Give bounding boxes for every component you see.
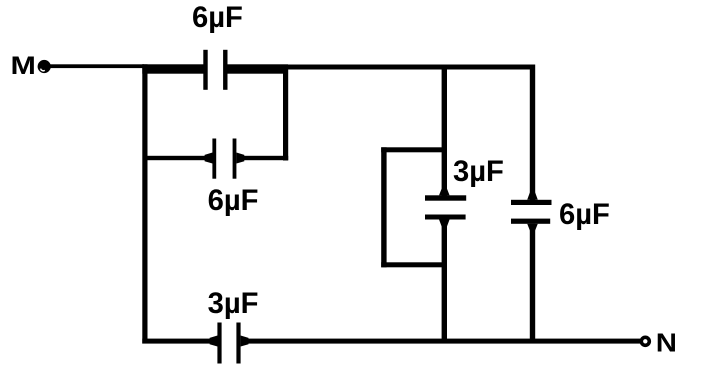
capacitor C2 right wedge (236, 153, 244, 164)
capacitor C5 bottom wedge (527, 224, 538, 230)
capacitor C5 top plate (511, 200, 552, 205)
wire mid vertical top segment (x=444) (442, 65, 447, 196)
capacitor C5 top wedge (527, 193, 538, 200)
capacitor C3 right plate (236, 323, 240, 364)
svg-text:6µF: 6µF (559, 199, 610, 231)
wire loop bottom (381, 262, 447, 267)
capacitor C4 top plate (425, 195, 466, 200)
wire pair-right vertical (x=285.5) (283, 65, 288, 161)
capacitor C2 left wedge (205, 153, 213, 164)
capacitor C2 right plate (233, 139, 237, 179)
capacitor C4 bottom wedge (439, 219, 450, 226)
capacitor C3 left plate (217, 323, 221, 364)
wire bold top-right (C1 right plate to pair-right vertical) (228, 64, 289, 73)
svg-text:M: M (11, 51, 36, 79)
svg-text:6µF: 6µF (208, 185, 259, 217)
capacitor C4 top wedge (439, 189, 450, 196)
wire bottom left segment (142, 339, 211, 344)
wire C2 right lead (244, 156, 289, 160)
capacitor C3 right wedge (241, 336, 249, 347)
wire loop left vertical (381, 147, 386, 267)
terminal N (641, 337, 649, 345)
wire right vertical top segment (x=532.5) (530, 65, 535, 201)
wire top (pair-right vertical to right branch corner) (283, 65, 535, 70)
svg-text:3µF: 3µF (208, 288, 259, 320)
wire mid vertical bottom segment (442, 219, 447, 343)
wire left vertical (x=145, top node to bottom node) (142, 64, 147, 343)
capacitor C2 left plate (212, 139, 216, 179)
svg-text:N: N (656, 328, 677, 357)
capacitor C4 bottom plate (425, 215, 466, 220)
wire right vertical bottom segment (530, 224, 535, 344)
capacitor C3 left wedge (210, 336, 218, 347)
capacitor C5 bottom plate (511, 219, 550, 224)
terminal M (38, 60, 51, 73)
wire bold top-left (junction to C1 left plate) (142, 64, 204, 73)
capacitor C1 6uF right plate (223, 50, 227, 90)
svg-text:3µF: 3µF (453, 156, 504, 188)
wire loop top (short across C4) (381, 147, 447, 152)
capacitor C1 6uF left plate (203, 50, 207, 90)
wire C2 left lead (144, 156, 205, 160)
wire M to left junction (50, 64, 144, 68)
wire bottom right segment (C3 to terminal N) (248, 339, 640, 344)
svg-text:6µF: 6µF (192, 2, 243, 34)
